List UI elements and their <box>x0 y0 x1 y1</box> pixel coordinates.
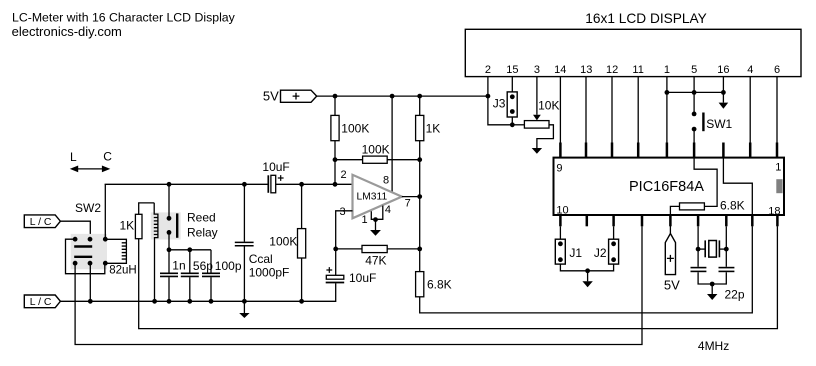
svg-text:2: 2 <box>485 64 491 76</box>
svg-text:1000pF: 1000pF <box>249 266 290 280</box>
svg-text:5V: 5V <box>263 89 279 104</box>
switch SW2 <box>71 234 108 269</box>
capacitor 10uF (vertical, at pin3) <box>326 249 377 285</box>
svg-text:LC-Meter with 16 Character LCD: LC-Meter with 16 Character LCD Display <box>12 10 236 24</box>
wire 1K bottom long run to PIC pin 18 <box>139 226 778 329</box>
wire LCD pin 4 to PIC <box>749 77 751 145</box>
wire LCD pin 3 wiper arrow <box>533 77 541 121</box>
svg-text:SW2: SW2 <box>75 201 101 215</box>
svg-text:3: 3 <box>534 64 540 76</box>
svg-text:Relay: Relay <box>187 226 218 240</box>
capacitor 22p (left) <box>691 268 713 284</box>
svg-text:J3: J3 <box>493 96 506 110</box>
IC U3 PIC16F84A <box>554 158 785 218</box>
wire 5V rail <box>317 94 491 99</box>
wire SW2 bottom middle to L/C rail <box>89 263 91 301</box>
jumper J2 <box>588 226 619 270</box>
wire LC tank top rail <box>105 182 353 187</box>
svg-text:100K: 100K <box>269 235 297 249</box>
op-amp U1 LM311 <box>340 169 411 226</box>
svg-text:4: 4 <box>385 204 391 216</box>
L C range arrow <box>70 149 112 172</box>
svg-text:100K: 100K <box>341 121 369 135</box>
svg-text:10uF: 10uF <box>262 160 289 174</box>
svg-text:L / C: L / C <box>30 217 52 228</box>
svg-text:82uH: 82uH <box>109 265 137 277</box>
wire LCD pin 6 to PIC <box>776 77 778 145</box>
svg-text:100p: 100p <box>215 259 242 273</box>
svg-text:10uF: 10uF <box>349 271 376 285</box>
wire tie pins 1-5-16 <box>667 91 724 93</box>
svg-text:100K: 100K <box>362 143 390 157</box>
svg-text:1: 1 <box>362 214 368 226</box>
svg-text:J1: J1 <box>569 246 582 260</box>
svg-text:2: 2 <box>341 169 347 181</box>
svg-text:4MHz: 4MHz <box>698 339 729 353</box>
wire LCD pin 12 to PIC <box>611 77 613 145</box>
ground below J1 J2 <box>582 268 592 287</box>
wire PIC pin 3 internal run <box>723 158 752 215</box>
svg-text:1: 1 <box>664 64 670 76</box>
ground below crystal caps <box>707 282 717 300</box>
svg-text:6: 6 <box>774 64 780 76</box>
svg-text:10: 10 <box>556 204 568 216</box>
resistor 100K (to ground, at Ccal) <box>269 184 305 303</box>
ground op-amp pins 1/4 <box>370 220 381 236</box>
resistor 1K (5V to output) <box>416 96 441 160</box>
resistor 6.8K pull-up (inside PIC drawing) <box>670 158 744 234</box>
svg-text:15: 15 <box>506 64 518 76</box>
power 5V flag (PIC supply) <box>664 234 680 293</box>
svg-text:16x1 LCD DISPLAY: 16x1 LCD DISPLAY <box>585 11 706 26</box>
potentiometer 10K contrast <box>512 98 559 148</box>
jumper J1 <box>555 226 587 270</box>
wire LCD pin 16 down arrow <box>719 77 729 109</box>
svg-text:5V: 5V <box>664 278 680 293</box>
ground below Ccal <box>239 299 249 318</box>
node L/C bottom tag <box>24 295 60 308</box>
svg-text:12: 12 <box>606 64 618 76</box>
svg-text:LM311: LM311 <box>357 192 388 203</box>
svg-text:3: 3 <box>340 206 346 218</box>
wire LCD pin 2 to 5V rail and contrast node <box>488 77 512 125</box>
resistor 47K <box>333 245 422 267</box>
wire from L/C tag to SW2 <box>60 221 90 239</box>
svg-text:18: 18 <box>768 205 780 217</box>
svg-text:1K: 1K <box>426 121 441 135</box>
PIC top pin stubs <box>560 143 777 158</box>
svg-text:11: 11 <box>632 64 643 76</box>
PIC bottom pin stubs <box>560 215 777 226</box>
svg-text:1K: 1K <box>120 218 135 232</box>
svg-text:C: C <box>103 149 112 163</box>
switch SW1 <box>692 112 733 146</box>
svg-text:J2: J2 <box>594 246 607 260</box>
wire LCD pin 5 <box>692 77 697 114</box>
title text <box>12 10 236 39</box>
wire op-amp pin 7 output <box>402 160 422 272</box>
wire LCD pin 13 to PIC <box>585 77 587 145</box>
svg-text:L: L <box>70 150 77 164</box>
svg-text:5: 5 <box>691 64 697 76</box>
node L/C top tag <box>24 215 60 228</box>
jumper J3 <box>493 77 518 128</box>
PIC pin-1 notch mark <box>776 179 782 193</box>
svg-text:14: 14 <box>554 64 566 76</box>
resistor 6.8K (output divider) <box>416 272 452 297</box>
LCD display U2 16x1 <box>465 11 801 77</box>
wire op-amp pin 3 <box>336 211 353 249</box>
wire LCD pin 14 to PIC <box>559 77 561 145</box>
svg-text:6.8K: 6.8K <box>427 277 452 291</box>
wire LCD pin 11 to PIC <box>637 77 639 145</box>
wire op-amp pins 1 and 4 <box>371 206 383 222</box>
svg-text:SW1: SW1 <box>706 117 732 131</box>
svg-text:7: 7 <box>405 198 411 210</box>
capacitor 22p (right) <box>712 268 745 302</box>
resistor 100K (5V to pin2) <box>331 96 369 184</box>
ground below 10K pot <box>532 148 542 154</box>
svg-text:16: 16 <box>717 64 729 76</box>
wire op-amp pin 8 from 5V rail <box>391 96 393 192</box>
svg-text:8: 8 <box>383 175 389 187</box>
svg-text:1n: 1n <box>172 258 185 272</box>
crystal X1 <box>696 226 729 266</box>
wire LCD pin 1 to PIC <box>665 77 670 145</box>
svg-text:Reed: Reed <box>187 211 216 225</box>
svg-text:L / C: L / C <box>30 297 52 308</box>
power 5V flag (left) <box>263 89 317 104</box>
svg-text:10K: 10K <box>538 98 559 112</box>
svg-text:6.8K: 6.8K <box>720 198 745 212</box>
resistor R 1K (tank) <box>120 203 155 239</box>
svg-text:Ccal: Ccal <box>249 252 273 266</box>
wire L/C bottom rail <box>60 283 335 303</box>
wire SW2 bottom left long run to PIC pin 13 <box>75 226 642 344</box>
resistor 100K feedback (horizontal) <box>333 143 423 164</box>
capacitor Ccal 1000pF <box>235 182 290 301</box>
capacitor 1n <box>160 250 186 304</box>
svg-text:9: 9 <box>556 163 562 175</box>
relay Reed Relay <box>151 182 218 301</box>
wire output to PIC pin 3 run <box>420 226 753 313</box>
wire capacitor bank top junction <box>152 247 211 303</box>
svg-text:4: 4 <box>747 64 753 76</box>
svg-text:56p: 56p <box>193 259 213 273</box>
svg-text:electronics-diy.com: electronics-diy.com <box>12 24 122 39</box>
wire SW2 top right riser to tank rail <box>104 184 106 239</box>
capacitor 10uF coupling (horizontal) <box>262 160 289 193</box>
svg-text:PIC16F84A: PIC16F84A <box>629 179 704 195</box>
wire SW2 left bracket <box>66 239 105 274</box>
svg-text:13: 13 <box>580 64 592 76</box>
capacitor 56p <box>181 250 213 304</box>
svg-text:47K: 47K <box>365 254 386 268</box>
capacitor 100p <box>202 250 242 304</box>
svg-text:22p: 22p <box>725 288 745 302</box>
svg-text:1: 1 <box>775 162 781 174</box>
LCD pin number labels <box>485 64 780 76</box>
inductor 82uH <box>105 239 136 276</box>
